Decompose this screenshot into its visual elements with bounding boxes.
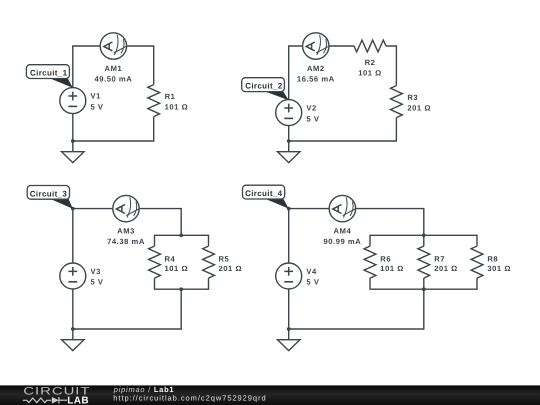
wire top bar R6 R7 R8 [370,235,477,246]
label R4 101 ohm [165,255,189,274]
ground circuit 4 [278,329,300,351]
svg-text:101 Ω: 101 Ω [165,264,189,273]
svg-text:Circuit_3: Circuit_3 [30,189,68,198]
junction dot circuit 4 ground node [287,327,291,331]
footer bar [0,385,540,405]
resistor R6 [364,246,376,278]
wire AM2 to resistor R2 [329,45,354,47]
svg-text:101 Ω: 101 Ω [380,264,404,273]
svg-text:90.99 mA: 90.99 mA [324,237,362,246]
svg-text:Circuit_1: Circuit_1 [30,68,68,77]
label AM4 90.99 mA [324,227,362,247]
svg-text:R5: R5 [219,255,230,264]
label V3 5 V [91,267,104,287]
resistor R3 [391,86,403,118]
wire V4 bottom to ground node [288,289,290,329]
svg-text:V2: V2 [306,104,316,113]
wire V1 bottom to ground node [72,114,74,141]
svg-text:Circuit_2: Circuit_2 [245,81,283,90]
wire R7 top lead [423,235,425,246]
wire V3 top to ammeter AM3 [73,209,113,264]
wire V2 bottom to ground node [288,126,290,141]
node flag Circuit_1 [26,65,72,88]
wire R1 bottom to ground node [73,117,154,141]
voltage source V1 [60,88,86,114]
node flag Circuit_2 [242,78,289,101]
voltage source V4 [276,263,302,289]
ground circuit 1 [62,141,84,163]
svg-text:201 Ω: 201 Ω [407,104,431,113]
label V1 5 V [91,92,104,112]
ammeter AM3 [113,195,139,221]
wire bottom bar R6 R7 R8 [370,278,477,289]
svg-text:74.38 mA: 74.38 mA [107,237,145,246]
wire V4 top to ammeter AM4 [289,209,330,264]
svg-text:R4: R4 [165,255,176,264]
label AM3 74.38 mA [107,227,145,247]
label R5 201 ohm [219,255,243,274]
wire bottom bar R4 R5 [155,278,209,289]
svg-text:301 Ω: 301 Ω [487,264,511,273]
svg-text:http://circuitlab.com/c2qw7529: http://circuitlab.com/c2qw752929qrd [113,394,266,403]
resistor R5 [203,246,215,278]
wire R2 to resistor R3 [386,46,396,86]
svg-text:201 Ω: 201 Ω [219,264,243,273]
svg-text:49.50 mA: 49.50 mA [95,75,133,84]
ammeter AM4 [329,195,355,221]
label R8 301 ohm [487,255,511,274]
label AM1 49.50 mA [95,64,133,84]
junction dot circuit 4 flag node [287,207,291,211]
svg-text:AM3: AM3 [117,227,135,236]
svg-text:Circuit_4: Circuit_4 [245,189,283,198]
resistor R2 [354,40,386,52]
wire AM3 to parallel block top [139,209,181,236]
svg-text:AM4: AM4 [334,227,352,236]
label R3 201 ohm [407,93,431,113]
wire AM4 to parallel block top [356,209,424,236]
wire V1 top to ammeter AM1 [73,46,100,88]
label V2 5 V [306,104,319,124]
voltage source V2 [276,100,302,126]
junction dot circuit 3 ground node [71,327,75,331]
svg-text:V4: V4 [306,267,317,276]
svg-text:R2: R2 [365,58,376,67]
resistor R4 [149,246,161,278]
svg-text:5 V: 5 V [306,114,319,123]
svg-text:5 V: 5 V [91,278,104,287]
junction dot circuit 3 flag node [71,207,75,211]
svg-text:R3: R3 [407,93,418,102]
voltage source V3 [60,263,86,289]
junction dot circuit 1 ground node [71,139,75,143]
wire V3 bottom to ground node [72,289,74,329]
label R1 101 ohm [165,92,189,112]
junction dot circuit 4 bottom bar [422,287,426,291]
svg-text:AM1: AM1 [105,64,123,73]
ground circuit 2 [278,141,300,163]
resistor R7 [418,246,430,278]
svg-text:16.56 mA: 16.56 mA [297,75,335,84]
svg-text:R7: R7 [434,255,445,264]
label V4 5 V [306,267,319,287]
svg-text:201 Ω: 201 Ω [434,264,458,273]
wire top bar R4 R5 [155,235,209,246]
resistor R1 [148,85,160,117]
wire parallel block bottom to ground node [73,289,181,329]
label AM2 16.56 mA [297,64,335,84]
svg-text:R1: R1 [165,92,176,101]
wire R7 bottom lead [423,278,425,289]
node flag Circuit_3 [27,186,73,209]
wire parallel block bottom to ground node [289,289,424,329]
ammeter AM1 [100,33,126,59]
svg-text:5 V: 5 V [306,278,319,287]
svg-text:101 Ω: 101 Ω [358,68,382,77]
svg-text:5 V: 5 V [91,102,104,111]
label R6 101 ohm [380,255,404,274]
svg-text:R6: R6 [380,255,391,264]
junction dot circuit 3 top bar [179,233,183,237]
resistor R8 [471,246,483,278]
ground circuit 3 [62,329,84,351]
svg-text:R8: R8 [487,255,498,264]
node flag Circuit_4 [243,185,289,208]
label R2 101 ohm [358,58,382,78]
svg-text:V3: V3 [91,267,101,276]
svg-text:LAB: LAB [67,395,89,405]
junction dot circuit 2 ground node [287,139,291,143]
wire AM1 to resistor R1 [127,46,154,85]
ammeter AM2 [303,33,329,59]
junction dot circuit 3 bottom bar [179,287,183,291]
CircuitLab logo wordmark [23,385,90,405]
wire V2 top to ammeter AM2 [289,46,303,100]
label R7 201 ohm [434,255,458,274]
svg-text:AM2: AM2 [307,64,325,73]
svg-text:V1: V1 [91,92,102,101]
CircuitLab logo resistor-diode glyph [23,397,67,404]
svg-text:101 Ω: 101 Ω [165,103,189,112]
wire R3 bottom to ground node [289,118,397,141]
junction dot circuit 4 top bar [422,233,426,237]
